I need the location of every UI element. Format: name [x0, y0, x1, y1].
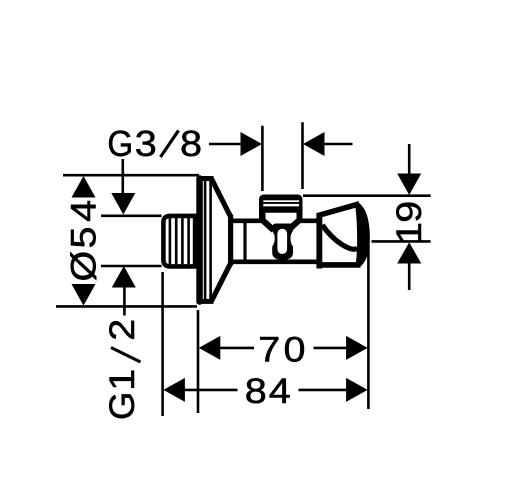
- thread crest line 4: [187, 218, 190, 264]
- outlet thread gap 1: [263, 200, 299, 202]
- label 19 (rotated): [389, 201, 428, 244]
- outlet right wall: [297, 210, 303, 222]
- arrowhead right at top outlet left extension: [241, 132, 263, 156]
- handle swoosh curve: [322, 225, 357, 249]
- svg-text:9: 9: [389, 201, 428, 223]
- thread end cap: [193, 214, 199, 268]
- dimension 19 top extension line: [303, 194, 431, 197]
- svg-text:0: 0: [284, 330, 306, 369]
- svg-text:2: 2: [102, 319, 141, 341]
- extension line thread top: [101, 215, 162, 218]
- thread crest line 2: [175, 218, 178, 264]
- svg-text:7: 7: [258, 330, 280, 369]
- thread crest line 3: [181, 218, 184, 264]
- svg-text:5: 5: [64, 227, 103, 249]
- dimension 70: [199, 330, 368, 369]
- rosette front plate: [196, 175, 203, 304]
- svg-text:G: G: [107, 125, 133, 165]
- arrowhead down onto thread top extension: [111, 193, 135, 215]
- leader line down to G1/2 label: [123, 285, 126, 316]
- rosette cone top slant: [212, 179, 231, 217]
- outlet-spool right slant: [286, 219, 302, 233]
- rosette detail line 2: [209, 180, 212, 300]
- arrowhead up 19: [397, 242, 421, 263]
- rosette detail line 1: [204, 181, 207, 300]
- rosette cone right face: [228, 215, 233, 266]
- outlet-spool left slant: [260, 219, 276, 233]
- handle top edge: [318, 204, 359, 216]
- leader line from G3/8 down: [122, 159, 125, 196]
- spool body: [272, 224, 293, 260]
- label O54 (rotated): [64, 200, 103, 282]
- svg-text:3: 3: [135, 125, 157, 165]
- arrowhead left at top outlet right extension: [303, 132, 325, 156]
- handle bottom edge: [319, 262, 361, 268]
- body tube top edge right of outlet: [299, 219, 318, 224]
- rosette top edge: [198, 176, 214, 181]
- svg-text:4: 4: [64, 200, 103, 222]
- handle left face: [316, 213, 322, 269]
- svg-text:8: 8: [245, 371, 267, 410]
- extension line rosette top (O54): [63, 174, 199, 177]
- rosette cone bottom slant: [212, 264, 231, 302]
- arrowhead down 19: [397, 174, 421, 196]
- arrowhead up onto thread bottom extension: [112, 266, 136, 288]
- extension line right end (70/84): [367, 245, 370, 409]
- extension line thread bottom: [101, 265, 162, 268]
- extension line rosette bottom (O54): [56, 305, 197, 308]
- extension line top outlet left: [261, 126, 264, 191]
- tail of 19 bottom arrow: [408, 262, 411, 290]
- outlet thread gap 2: [263, 204, 299, 207]
- arrowhead down O54: [72, 284, 96, 306]
- neck joint line: [243, 220, 246, 261]
- svg-text:G: G: [103, 392, 142, 420]
- body tube top edge left of outlet: [230, 219, 262, 224]
- extension line top outlet right: [301, 122, 304, 189]
- label G3/8: [107, 125, 202, 165]
- wall thread G1/2 outline: [163, 216, 198, 267]
- tail of 19 top arrow: [408, 144, 411, 175]
- svg-text:Ø: Ø: [64, 251, 103, 282]
- outlet left wall: [259, 210, 266, 222]
- leader line from G3/8 to top outlet: [209, 143, 242, 146]
- extension line left end (84): [161, 272, 164, 416]
- tail of right arrow: [324, 143, 353, 146]
- extension line wall plane (70): [197, 310, 200, 413]
- arrowhead up O54: [72, 176, 96, 198]
- rosette bottom edge: [198, 299, 214, 304]
- svg-text:8: 8: [180, 125, 202, 165]
- handle right face band: [355, 202, 370, 267]
- svg-text:4: 4: [269, 371, 291, 410]
- svg-text:1: 1: [102, 369, 141, 391]
- body tube bottom edge: [230, 259, 318, 264]
- svg-text:1: 1: [389, 222, 428, 244]
- dimension 19 bottom extension line (axis): [372, 240, 431, 243]
- thread crest line 1: [169, 218, 172, 264]
- dimension 84: [163, 371, 367, 410]
- label G1/2 (rotated): [102, 319, 142, 420]
- top outlet block G3/8: [259, 195, 303, 213]
- spool slot: [277, 229, 287, 254]
